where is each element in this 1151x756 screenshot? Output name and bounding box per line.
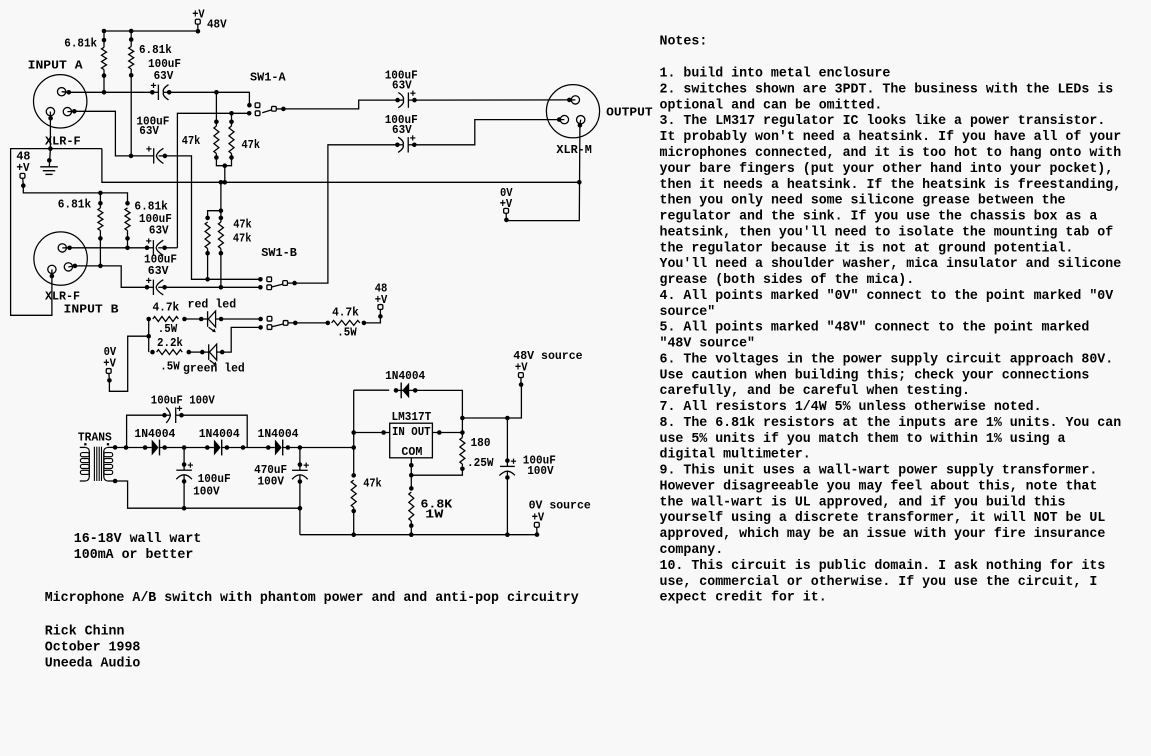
svg-text:8. The 6.81k resistors at the: 8. The 6.81k resistors at the inputs are… — [660, 416, 1122, 431]
capacitor C3 100uF 63V — [145, 238, 167, 255]
label 100uF (C4) — [144, 252, 177, 266]
svg-text:47k: 47k — [182, 134, 201, 148]
label 63V (C1) — [154, 69, 174, 83]
svg-text:regulator and the sink. If you: regulator and the sink. If you use the c… — [660, 210, 1098, 225]
label SW1-A — [250, 71, 286, 85]
wire OUT pin — [432, 430, 464, 435]
svg-text:yourself using a discrete tran: yourself using a discrete transformer, i… — [660, 511, 1106, 526]
wire C8 to bottom rail — [182, 481, 187, 510]
capacitor C8 100uF 100V — [176, 448, 193, 484]
label red led — [188, 298, 237, 312]
junction dot led feed — [146, 334, 151, 339]
label 100uF (C2) — [136, 115, 169, 129]
wire left box outline — [11, 149, 102, 316]
capacitor C4 100uF 63V — [145, 278, 167, 295]
svg-text:company.: company. — [660, 543, 724, 558]
svg-text:4. All points marked "0V" conn: 4. All points marked "0V" connect to the… — [660, 289, 1115, 304]
wire SW1-B common up to cap6 — [295, 145, 398, 283]
caption microphone line — [45, 591, 579, 606]
wire A2 bottom lead to cap2 junction — [130, 69, 132, 156]
junction dot rail2/C10 — [505, 532, 510, 537]
wire 48V source row — [462, 385, 521, 418]
label 4.7k (sw) — [332, 306, 359, 320]
wire B1 top lead — [99, 193, 101, 208]
connector XLR-F INPUT B body — [34, 232, 87, 285]
wire A2 top lead — [130, 31, 132, 47]
resistor R 47k B-right — [218, 216, 223, 256]
diode D1 1N4004 — [143, 440, 167, 456]
svg-text:then you only need some silico: then you only need some silicone grease … — [660, 194, 1066, 209]
XLR-M pin 2 — [567, 96, 580, 104]
wire ground bus — [102, 149, 579, 183]
label 6.8K — [421, 497, 454, 511]
svg-text:the wall-wart is UL approved,: the wall-wart is UL approved, and if you… — [660, 495, 1066, 510]
svg-text:SW1-B: SW1-B — [261, 246, 297, 260]
node 48V terminal (mid) — [378, 305, 383, 310]
wire cap4 out to SW1-B bottom row — [165, 286, 261, 288]
label 48V (top) — [207, 18, 227, 32]
junction dot rail2/47k — [351, 532, 356, 537]
switch SW1-C top contact — [258, 316, 272, 321]
wire 47k-B-left lead to SW1-B top row — [205, 249, 210, 282]
svg-text:4.7k: 4.7k — [332, 306, 359, 320]
wire pin3-B dogleg to cap4 — [75, 266, 147, 287]
wire A1 bottom lead — [103, 70, 105, 93]
junction dot bypass-cap left — [124, 445, 129, 450]
capacitor C9 470uF 100V — [292, 448, 309, 484]
capacitor C2 100uF 63V — [129, 146, 168, 163]
label 180 — [471, 436, 491, 450]
label 100V (C10) — [527, 464, 554, 478]
wire secondary top rail — [115, 447, 145, 449]
node 0V source terminal — [534, 522, 539, 537]
svg-text:63V: 63V — [139, 124, 159, 138]
XLR-B pin 3 — [64, 263, 75, 271]
svg-text:2.2k: 2.2k — [157, 336, 183, 350]
wire COM pin vertical — [409, 458, 414, 489]
junction dot rail2/6.8K — [409, 532, 414, 537]
wire 4.7k to red led — [185, 318, 202, 320]
junction dot C10 top feed — [505, 416, 510, 421]
svg-text:Microphone A/B switch with pha: Microphone A/B switch with phantom power… — [45, 591, 579, 606]
switch SW1-A top contact — [247, 103, 260, 108]
wire 180 bottom to COM dogleg — [411, 464, 462, 475]
connector XLR-F INPUT A body — [34, 75, 87, 128]
svg-text:.5W: .5W — [337, 326, 357, 340]
switch SW1-A pole — [262, 106, 286, 112]
svg-text:100V: 100V — [193, 485, 220, 499]
caption Uneeda Audio — [45, 657, 141, 672]
label 100V (C8) — [193, 485, 220, 499]
wire cap3 out up to SW1-A bottom (via x=177) — [165, 247, 178, 249]
label IN OUT — [392, 425, 431, 439]
junction dot A2 top bus — [129, 29, 134, 34]
node 0V terminal near output — [504, 208, 509, 222]
svg-text:You'll need a shoulder washer,: You'll need a shoulder washer, mica insu… — [660, 257, 1122, 272]
svg-text:6.81k: 6.81k — [139, 43, 172, 57]
svg-text:100mA or better: 100mA or better — [74, 548, 194, 563]
svg-text:100V: 100V — [258, 474, 285, 488]
svg-text:microphones connected, and it: microphones connected, and it is too hot… — [660, 146, 1122, 161]
junction dot C8 top — [182, 445, 187, 450]
svg-text:It probably won't need a heats: It probably won't need a heatsink. If yo… — [660, 130, 1122, 145]
label 6.81k B1 — [58, 198, 91, 212]
label 47k (reg) — [363, 476, 382, 490]
label XLR-M — [556, 143, 592, 157]
svg-text:IN OUT: IN OUT — [392, 425, 431, 439]
wire SW1-A common to cap5 — [283, 100, 397, 109]
junction dot 47k-A-right feed — [229, 111, 234, 116]
notes text block — [660, 34, 1122, 605]
wire 2.2k to green led — [189, 351, 203, 353]
svg-text:16-18V wall wart: 16-18V wall wart — [74, 532, 202, 547]
label 63V (C2) — [139, 124, 159, 138]
label 2.2k — [157, 336, 183, 350]
svg-text:.5W: .5W — [158, 322, 178, 336]
svg-text:47k: 47k — [363, 476, 382, 490]
svg-text:63V: 63V — [392, 123, 412, 137]
wire SW1-A bottom feed — [177, 113, 249, 247]
resistor R 47k B-left — [205, 216, 210, 256]
node 0V terminal (input B area) — [106, 369, 111, 383]
svg-text:INPUT B: INPUT B — [64, 303, 119, 317]
wire 47k reg to rail2 — [353, 508, 355, 535]
wire B1 bottom lead to pin3-B wire — [98, 231, 103, 269]
svg-text:6.81k: 6.81k — [58, 198, 91, 212]
svg-text:2. switches shown are 3PDT. Th: 2. switches shown are 3PDT. The business… — [660, 83, 1114, 98]
label 48 (mid) — [375, 282, 388, 296]
label 63V (C6) — [392, 123, 412, 137]
svg-text:9. This unit uses a wall-wart: 9. This unit uses a wall-wart power supp… — [660, 464, 1098, 479]
diode D2 1N4004 — [205, 440, 229, 456]
XLR-A pin 3 — [63, 107, 74, 115]
capacitor C10 100uF 100V — [499, 418, 516, 535]
wire 47k-A join to ground bus — [224, 166, 226, 183]
svg-text:SW1-A: SW1-A — [250, 71, 286, 85]
label 47k A-right — [242, 138, 261, 152]
svg-text:+V: +V — [103, 356, 116, 370]
wire XLR-M pin3 down to 0V terminal — [507, 125, 580, 220]
wire 48V feed to input B resistors — [23, 186, 127, 204]
node pin2-B dot — [67, 246, 72, 251]
junction dot bus/XLR-M pin3 — [577, 180, 582, 185]
regulator U1 LM317T box — [390, 423, 433, 458]
label +V (0V source) — [532, 510, 545, 524]
switch SW1-C pole — [272, 321, 298, 327]
label .25W — [467, 456, 494, 470]
label 100uF (C3) — [139, 212, 172, 226]
svg-text:green led: green led — [183, 362, 245, 376]
junction dot bypass-cap right — [241, 445, 246, 450]
svg-text:LM317T: LM317T — [392, 410, 432, 424]
label +V (left box) — [16, 161, 30, 175]
svg-text:4.7k: 4.7k — [153, 301, 180, 315]
svg-text:XLR-M: XLR-M — [556, 143, 592, 157]
XLR-A pin 1 — [46, 107, 54, 148]
wire D3 to LM317 vertical — [287, 447, 353, 449]
svg-text:+V: +V — [532, 510, 545, 524]
wire SW1-C common to 4.7k — [295, 322, 328, 324]
svg-text:+V: +V — [515, 361, 528, 375]
svg-text:optional and can be omitted.: optional and can be omitted. — [660, 98, 883, 113]
svg-text:1N4004: 1N4004 — [385, 369, 425, 383]
wire bypass cap right vertical — [182, 415, 248, 447]
label .5W (green) — [160, 360, 180, 374]
label 1N4004 (D1) — [134, 427, 175, 441]
label XLR-F (B) — [45, 289, 80, 303]
diode D4 1N4004 (bypass) — [354, 383, 418, 399]
node 48V terminal (top, +V 48V) — [195, 19, 200, 33]
node 48V terminal (left box) — [20, 173, 26, 188]
ground symbol — [40, 149, 58, 175]
label 470uF — [254, 463, 287, 477]
switch SW1-B pole — [272, 281, 297, 287]
label INPUT B — [64, 303, 119, 317]
svg-text:63V: 63V — [392, 79, 412, 93]
svg-text:63V: 63V — [149, 224, 169, 238]
wire bus down to 47k-B tops — [208, 182, 224, 222]
label 1N4004 (D4) — [385, 369, 425, 383]
svg-text:47k: 47k — [242, 138, 261, 152]
wire cap5 to XLR-M pin2 — [415, 99, 570, 101]
wire IN pin — [351, 430, 389, 435]
diode D3 1N4004 — [266, 440, 290, 456]
svg-text:then it needs a heatsink. If t: then it needs a heatsink. If the heatsin… — [660, 178, 1122, 193]
svg-text:"48V source": "48V source" — [660, 337, 756, 352]
label 0V (led) — [104, 345, 117, 359]
svg-text:1. build into metal enclosure: 1. build into metal enclosure — [660, 67, 891, 82]
label 100uF (C6) — [385, 113, 418, 127]
svg-text:10. This circuit is public dom: 10. This circuit is public domain. I ask… — [660, 559, 1106, 574]
svg-text:+V: +V — [16, 161, 30, 175]
svg-text:48V: 48V — [207, 18, 227, 32]
label +V (mid) — [375, 293, 388, 307]
svg-text:6.81k: 6.81k — [64, 37, 97, 51]
svg-text:1N4004: 1N4004 — [134, 427, 175, 441]
svg-text:TRANS: TRANS — [78, 430, 112, 444]
svg-text:your bare fingers (put your ot: your bare fingers (put your other hand i… — [660, 162, 1114, 177]
XLR-A pin 2 — [57, 88, 68, 96]
resistor R 2.2k .5W (green led) — [150, 350, 191, 355]
wire A1 top lead — [103, 31, 105, 47]
svg-text:INPUT A: INPUT A — [28, 58, 84, 72]
svg-text:red led: red led — [188, 298, 237, 312]
label XLR-F (A) — [45, 135, 81, 149]
svg-text:use, commercial or otherwise.: use, commercial or otherwise. If you use… — [660, 575, 1098, 590]
junction dot B1 feed — [98, 191, 103, 196]
svg-text:OUTPUT: OUTPUT — [606, 106, 653, 120]
label green led — [183, 362, 245, 376]
label 48 (left box) — [16, 150, 30, 164]
capacitor C5 100uF 63V — [395, 91, 417, 108]
label 1N4004 (D3) — [258, 427, 299, 441]
connector XLR-M OUTPUT body — [546, 85, 599, 138]
svg-text:47k: 47k — [233, 217, 252, 231]
svg-text:3. The LM317 regulator IC look: 3. The LM317 regulator IC looks like a p… — [660, 114, 1106, 129]
wire led feed split — [148, 319, 150, 352]
svg-text:Rick Chinn: Rick Chinn — [45, 625, 125, 640]
resistor R 47k (reg) — [351, 473, 356, 513]
svg-text:source": source" — [660, 305, 716, 320]
switch SW1-B bottom contact — [258, 285, 271, 290]
label 16-18V wall wart — [74, 532, 202, 547]
svg-text:63V: 63V — [154, 69, 174, 83]
label +V (top) — [192, 7, 205, 21]
resistor R 4.7k .5W (switch) — [326, 320, 367, 325]
svg-text:the regulator because it is no: the regulator because it is not at groun… — [660, 241, 1074, 256]
label 100mA or better — [74, 548, 194, 563]
node pin2-A dot — [67, 90, 72, 95]
resistor R 6.81k B2 — [125, 201, 130, 241]
wire red led to SW1-C top contact — [221, 318, 261, 320]
resistor R 180 .25W — [460, 438, 465, 472]
junction dot bus/47k-A — [223, 180, 228, 185]
label COM — [401, 445, 422, 459]
label 6.81k B2 — [134, 199, 168, 213]
wire 47k-B-right lead to SW1-B bottom row — [219, 249, 224, 290]
svg-text:100uF 100V: 100uF 100V — [151, 394, 216, 408]
junction dot C9 top — [298, 445, 303, 450]
resistor R 6.81k B1 — [98, 201, 103, 241]
resistor R 4.7k .5W (red led) — [146, 317, 186, 322]
junction dot A1/pin2-A wire — [102, 90, 107, 95]
junction dot pin1-A/box — [48, 146, 53, 151]
wire cap1 out to SW1-A — [169, 92, 249, 105]
label .5W (sw) — [337, 326, 357, 340]
wire 47k-A-right leads — [225, 113, 232, 165]
wire pin3-A dogleg to cap2 — [74, 111, 131, 156]
label 6.81k A1 — [64, 37, 97, 51]
switch SW1-C bottom contact — [258, 325, 272, 330]
capacitor C6 100uF 63V — [395, 135, 417, 152]
svg-text:COM: COM — [401, 445, 422, 459]
svg-text:Notes:: Notes: — [660, 34, 708, 49]
junction dot rail/LM317 vert — [351, 445, 356, 450]
label 63V (C5) — [392, 79, 412, 93]
label 1N4004 (D2) — [199, 427, 240, 441]
svg-text:expect credit for it.: expect credit for it. — [660, 591, 827, 606]
label +V (48V source) — [515, 361, 528, 375]
wire bottom rail 2 — [300, 534, 537, 536]
svg-text:1N4004: 1N4004 — [258, 427, 299, 441]
transformer TRANS — [80, 443, 118, 483]
svg-text:October 1998: October 1998 — [45, 641, 141, 656]
svg-text:grease (both sides of the mica: grease (both sides of the mica). — [660, 273, 915, 288]
svg-text:.25W: .25W — [467, 456, 494, 470]
svg-text:100V: 100V — [527, 464, 554, 478]
wire OUT vertical top — [460, 416, 465, 438]
svg-text:6. The voltages in the power s: 6. The voltages in the power supply circ… — [660, 352, 1114, 367]
svg-text:1W: 1W — [425, 508, 444, 522]
label 100uF (C1) — [148, 57, 181, 71]
label 4.7k (red) — [153, 301, 180, 315]
resistor R 6.81k A1 — [102, 38, 107, 78]
wire 4.7k to 48V terminal — [364, 310, 383, 323]
XLR-B pin 1 — [48, 265, 56, 278]
label 47k B-1 — [233, 217, 252, 231]
label TRANS — [78, 430, 112, 444]
resistor R 47k A-left — [214, 120, 219, 160]
label .5W (red) — [158, 322, 178, 336]
label 63V (C3) — [149, 224, 169, 238]
wire pin2-A to cap1 — [69, 91, 153, 93]
label 0V (near output) — [500, 186, 513, 200]
svg-text:approved, which may be an issu: approved, which may be an issue with you… — [660, 527, 1106, 542]
svg-text:XLR-F: XLR-F — [45, 289, 80, 303]
wire D2 to D3 — [229, 447, 268, 449]
label +V (near output) — [500, 197, 513, 211]
wire cap2 out down to SW1-B top row — [165, 156, 261, 279]
XLR-M pin 1 — [557, 115, 569, 123]
node pin3-B dot — [73, 264, 78, 269]
svg-text:47k: 47k — [233, 231, 252, 245]
label 47k A-left — [182, 134, 201, 148]
resistor R 47k A-right — [229, 120, 234, 160]
svg-text:.5W: .5W — [160, 360, 180, 374]
svg-text:Uneeda Audio: Uneeda Audio — [45, 657, 141, 672]
label 100uF (C10) — [523, 453, 556, 467]
label OUTPUT — [606, 106, 653, 120]
capacitor C1 100uF 63V — [150, 83, 172, 100]
switch SW1-B top contact — [258, 277, 271, 282]
wire green led to SW1-C bottom contact — [222, 327, 260, 352]
wire pin2-B to cap3 — [70, 247, 147, 249]
svg-text:+V: +V — [375, 293, 388, 307]
label +V (led) — [103, 356, 116, 370]
label 47k B-2 — [233, 231, 252, 245]
junction dot bus/47k-B — [219, 180, 224, 185]
resistor R 6.8K 1W — [409, 486, 414, 528]
wire LM317 left vertical — [353, 390, 355, 475]
node 48V source terminal — [518, 373, 523, 387]
svg-text:+V: +V — [192, 7, 205, 21]
svg-text:7. All resistors 1/4W 5% unles: 7. All resistors 1/4W 5% unless otherwis… — [660, 400, 1042, 415]
node pin3-A dot — [72, 109, 77, 114]
wire 47k-A-left leads — [216, 92, 224, 165]
svg-text:+V: +V — [500, 197, 513, 211]
svg-text:use 5% units if you match them: use 5% units if you match them to within… — [660, 432, 1066, 447]
diode green led — [200, 344, 225, 365]
label 100uF (C8) — [198, 472, 231, 486]
svg-text:However disagreeable you may f: However disagreeable you may feel about … — [660, 480, 1098, 495]
wire 6.8K to rail2 — [410, 521, 412, 535]
label SW1-B — [261, 246, 297, 260]
capacitor C7 100uF 100V (bypass) — [162, 406, 184, 423]
svg-text:Use caution when building this: Use caution when building this; check yo… — [660, 368, 1090, 383]
label 1W — [425, 508, 444, 522]
wire C9 down through rail1 to rail2 — [298, 482, 303, 535]
svg-text:5. All points marked "48V" con: 5. All points marked "48V" connect to th… — [660, 321, 1090, 336]
wire D1 to D2 — [166, 447, 208, 449]
junction dot 47k-A join — [223, 163, 228, 168]
label 6.81k A2 — [139, 43, 172, 57]
label LM317T — [392, 410, 432, 424]
label 100uF (C5) — [385, 69, 418, 83]
label 0V source — [529, 499, 591, 513]
svg-text:1N4004: 1N4004 — [199, 427, 240, 441]
svg-text:heatsink, then you'll need to: heatsink, then you'll need to isolate th… — [660, 225, 1114, 240]
caption Rick Chinn — [45, 625, 125, 640]
XLR-B pin 2 — [58, 244, 69, 252]
label 48V source — [513, 349, 582, 363]
junction dot A1 top bus — [102, 29, 107, 34]
switch SW1-A bottom contact — [247, 111, 260, 116]
svg-text:carefully, and be careful when: carefully, and be careful when testing. — [660, 384, 970, 399]
wire D4 to OUT vertical — [415, 390, 462, 418]
svg-text:digital multimeter.: digital multimeter. — [660, 448, 811, 463]
svg-text:180: 180 — [471, 436, 491, 450]
label 100V (C9) — [258, 474, 285, 488]
